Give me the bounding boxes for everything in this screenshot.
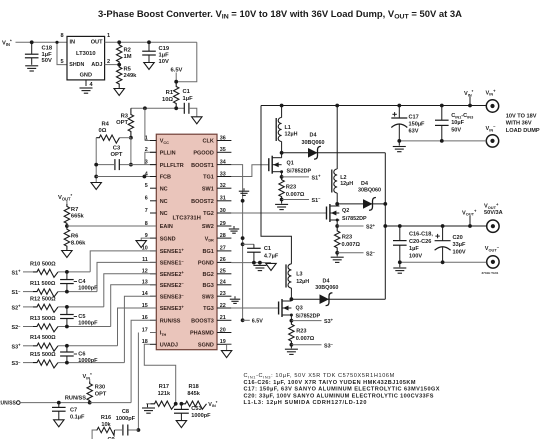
svg-text:LOAD DUMP: LOAD DUMP (506, 128, 540, 134)
wire TG2 to Q2 gate (231, 212, 326, 214)
resistor R15 (33, 360, 58, 368)
wire VIN rail (261, 105, 486, 107)
svg-text:SGND: SGND (198, 343, 214, 349)
svg-text:PGND: PGND (198, 261, 214, 267)
svg-text:L1: L1 (285, 125, 291, 131)
svg-text:1000pF: 1000pF (78, 285, 98, 291)
resistor R23 phase1 sense (279, 177, 284, 200)
wire D4 anode/cathode (282, 152, 386, 154)
wire RUN/SS (20, 402, 90, 404)
junction R2 top (117, 40, 121, 44)
pin 22 stub (217, 307, 231, 309)
junction sense filter (65, 270, 69, 274)
wire (399, 226, 401, 241)
wire C4 (66, 272, 68, 280)
wire (58, 345, 118, 347)
svg-text:R16: R16 (101, 415, 111, 421)
resistor R14 (33, 343, 58, 351)
capacitor C5 (60, 314, 74, 316)
junction L2 top (335, 104, 339, 108)
resistor R23 phase2 sense (335, 226, 340, 253)
junction BOOST3 (241, 318, 245, 322)
ground R23 phase1 (275, 203, 288, 205)
resistor R12 (33, 304, 58, 312)
junction BOOST2 (241, 199, 245, 203)
pin 1 stub (150, 140, 156, 142)
capacitor C20 (435, 240, 451, 242)
svg-text:SW1: SW1 (202, 186, 214, 192)
svg-text:L3: L3 (296, 272, 302, 278)
pin 29 stub (217, 225, 231, 227)
wire S2+ (337, 225, 363, 227)
junction R3 R4 (129, 136, 133, 140)
node S2- junction (335, 251, 339, 255)
wire (58, 291, 97, 293)
svg-text:0.007Ω: 0.007Ω (296, 336, 315, 342)
pin 27 stub (217, 250, 231, 252)
svg-text:28: 28 (220, 233, 226, 239)
junction CIN top (440, 104, 444, 108)
junction C17 bottom (397, 139, 401, 143)
wire (23, 326, 33, 328)
wire C3 left (96, 164, 115, 166)
svg-text:RUN/SS: RUN/SS (0, 401, 16, 407)
svg-text:10V TO 18V: 10V TO 18V (506, 113, 537, 119)
node S3- junction (290, 343, 294, 347)
junction C1 bottom (252, 261, 256, 265)
svg-text:R5: R5 (124, 67, 132, 73)
capacitor CIN1-CIN3 (435, 119, 449, 121)
svg-text:1000pF: 1000pF (116, 416, 136, 422)
pin 31 stub (217, 200, 231, 202)
wire TG3 to Q3 gate (231, 307, 278, 309)
pin 28 stub (217, 237, 231, 239)
wire SW3 gnd tick (234, 296, 236, 298)
svg-text:CIN1-CIN3: CIN1-CIN3 (451, 113, 474, 119)
svg-text:23: 23 (220, 291, 226, 297)
wire C1 to ground (189, 108, 197, 117)
svg-text:249k: 249k (124, 73, 138, 79)
wire (31, 42, 33, 54)
svg-text:10V: 10V (159, 59, 169, 65)
capacitor C16-C26 bank (393, 240, 407, 242)
svg-text:SENSE2+: SENSE2+ (160, 270, 185, 278)
svg-text:PGOOD: PGOOD (193, 151, 214, 157)
svg-text:C8: C8 (122, 409, 129, 415)
svg-text:2: 2 (107, 59, 110, 65)
capacitor C18 (25, 53, 39, 55)
inductor L3 (288, 264, 291, 288)
node S1+ junction (280, 175, 284, 179)
svg-text:BG2: BG2 (202, 272, 213, 278)
resistor R5 (116, 65, 121, 87)
node S1- junction (280, 198, 284, 202)
junction C16 top (398, 224, 402, 228)
capacitor C8 (122, 425, 124, 436)
wire (441, 106, 443, 121)
junction C17 top (397, 104, 401, 108)
wire BOOST 6.5V rail (231, 165, 242, 321)
svg-text:1000pF: 1000pF (78, 358, 98, 364)
svg-text:C20-C26: C20-C26 (409, 239, 431, 245)
ground VIN return (393, 146, 406, 148)
junction VDR (241, 236, 245, 240)
svg-text:C7: C7 (70, 407, 77, 413)
wire RUN/SS vertical (131, 320, 156, 402)
junction ITH comp (137, 428, 141, 432)
pin 23 stub (217, 295, 231, 297)
junction C3 gnd leg (94, 163, 98, 167)
svg-text:1000pF: 1000pF (78, 320, 98, 326)
wire VIN* tick (469, 97, 471, 106)
wire (23, 362, 33, 364)
svg-text:PLLIN: PLLIN (160, 151, 176, 157)
wire PLLFLTR (119, 164, 156, 166)
junction FCB (143, 175, 147, 179)
wire ADJ to divider (105, 64, 120, 66)
junction ADJ divider (117, 63, 121, 67)
svg-text:1µF: 1µF (409, 246, 419, 252)
wire (58, 306, 104, 308)
svg-text:LT3010: LT3010 (76, 51, 96, 57)
svg-text:34: 34 (220, 159, 226, 165)
svg-text:21: 21 (220, 315, 226, 321)
wire VOUT return (400, 261, 487, 263)
wire (58, 326, 111, 328)
pin 32 stub (217, 187, 231, 189)
junction sense filter (65, 344, 69, 348)
svg-text:Q1: Q1 (287, 161, 294, 167)
resistor R11 (33, 289, 58, 297)
wire S3- (291, 344, 321, 346)
wire C5 (66, 307, 68, 315)
wire to SENSE pin 14 (124, 296, 156, 362)
ground SGND pin19 (221, 351, 231, 358)
ground LT3010 (80, 87, 93, 89)
svg-text:FCB: FCB (160, 175, 171, 181)
wire Q3 source (290, 315, 292, 321)
wire VIN return (399, 140, 486, 142)
svg-text:10µF: 10µF (451, 120, 464, 126)
resistor R16 (97, 427, 115, 435)
svg-text:SHDN: SHDN (69, 62, 84, 68)
wire R3 to PLLFLTR (130, 138, 132, 165)
svg-text:32: 32 (220, 183, 226, 189)
terminal VIN- (486, 135, 498, 147)
plus C17 (392, 113, 396, 115)
wire (23, 345, 33, 347)
svg-text:22: 22 (220, 303, 226, 309)
pin 12 stub (150, 273, 156, 275)
svg-text:5: 5 (60, 59, 63, 65)
svg-text:C20: 33µF, 100V SANYO ALUMINUM: C20: 33µF, 100V SANYO ALUMINUM ELECTROLY… (244, 393, 434, 399)
resistor R2 (116, 42, 121, 64)
svg-text:3: 3 (145, 159, 148, 165)
svg-text:C16-C18,: C16-C18, (409, 232, 433, 238)
svg-text:63V: 63V (409, 129, 419, 135)
junction C20 top (441, 224, 445, 228)
svg-text:C3: C3 (113, 146, 121, 152)
svg-text:12µH: 12µH (285, 132, 298, 138)
capacitor C1 4.7uF (247, 247, 261, 249)
wire to SENSE pin 12 (104, 274, 157, 307)
capacitor C7 (52, 406, 66, 408)
pin 5 stub (150, 187, 156, 189)
svg-text:C16-C26: 1µF, 100V X7R TAIYO Y: C16-C26: 1µF, 100V X7R TAIYO YUDEN HMK43… (244, 380, 416, 386)
pin 25 stub (217, 273, 231, 275)
svg-text:SENSE1–: SENSE1– (160, 259, 185, 267)
capacitor C6 (60, 351, 74, 353)
pin 24 stub (217, 284, 231, 286)
ground R6 (62, 251, 72, 258)
svg-text:SENSE1+: SENSE1+ (160, 247, 185, 255)
svg-text:2: 2 (145, 147, 148, 153)
pin 10 stub (150, 250, 156, 252)
svg-text:UVADJ: UVADJ (160, 343, 178, 349)
svg-text:ADJ: ADJ (91, 62, 102, 68)
svg-text:WITH 36V: WITH 36V (506, 121, 532, 127)
pin 30 stub (217, 212, 231, 214)
svg-text:SENSE3–: SENSE3– (160, 293, 185, 301)
svg-text:SENSE2–: SENSE2– (160, 281, 185, 289)
svg-text:Si7852DP: Si7852DP (342, 216, 367, 222)
wire Q3 drain (290, 299, 292, 301)
svg-text:PLLFLTR: PLLFLTR (160, 163, 184, 169)
svg-text:Q2: Q2 (342, 208, 349, 214)
svg-text:1M: 1M (124, 54, 132, 60)
svg-text:0Ω: 0Ω (99, 128, 107, 134)
svg-text:10Ω: 10Ω (162, 97, 173, 103)
ground SGND pin9 (136, 241, 146, 248)
svg-text:BOOST2: BOOST2 (191, 199, 214, 205)
svg-text:C6: C6 (78, 351, 85, 357)
svg-text:0.1µF: 0.1µF (70, 414, 85, 420)
junction C53 (180, 402, 184, 406)
ground R5 (114, 89, 124, 96)
wire VCC node (131, 107, 184, 109)
wire (281, 200, 283, 204)
svg-text:6: 6 (145, 196, 148, 202)
svg-text:100V: 100V (409, 253, 422, 259)
svg-text:D4: D4 (323, 279, 330, 285)
svg-text:R23: R23 (342, 235, 352, 241)
wire (31, 58, 33, 65)
wire SHDN to IN (57, 42, 67, 64)
wire TG1 to Q1 gate (231, 165, 268, 177)
wire VOUT rail (384, 153, 386, 299)
capacitor C4 (60, 279, 74, 281)
svg-text:3731H TA01: 3731H TA01 (482, 271, 499, 275)
svg-text:35: 35 (220, 147, 226, 153)
ground R17 (142, 407, 155, 409)
svg-text:C18: C18 (42, 46, 53, 52)
inductor L2 (334, 169, 337, 193)
svg-text:SW2: SW2 (202, 224, 214, 230)
svg-text:BOOST1: BOOST1 (191, 163, 214, 169)
pin 16 stub (150, 319, 156, 321)
svg-text:CIN1-CIN3: 10µF, 50V X5R TDK C: CIN1-CIN3: 10µF, 50V X5R TDK C5750X5R1H1… (244, 373, 395, 379)
svg-text:NC: NC (160, 186, 168, 192)
svg-text:33µF: 33µF (453, 242, 466, 248)
svg-text:Si7852DP: Si7852DP (296, 313, 321, 319)
wire SGND pin9 (141, 238, 150, 241)
wire Q1 source (281, 172, 283, 177)
transistor Q3 (278, 302, 280, 315)
wire VIN* to LT3010 IN (16, 41, 68, 43)
svg-text:R23: R23 (286, 185, 296, 191)
svg-text:12µH: 12µH (296, 279, 309, 285)
svg-text:29: 29 (220, 221, 226, 227)
resistor R1 (174, 82, 179, 109)
ground SW1 (239, 190, 249, 192)
svg-text:845k: 845k (187, 391, 200, 397)
svg-text:NC: NC (160, 199, 168, 205)
capacitor C17 (391, 117, 407, 119)
svg-text:OPT: OPT (116, 120, 128, 126)
wire ITH vertical (137, 333, 139, 431)
svg-text:8.06k: 8.06k (71, 241, 86, 247)
svg-text:C17: 150µF, 63V SANYO ALUMINUM: C17: 150µF, 63V SANYO ALUMINUM ELECTROLY… (244, 387, 440, 393)
svg-text:R12 500Ω: R12 500Ω (30, 296, 56, 302)
svg-text:PHASMD: PHASMD (190, 331, 214, 337)
wire (180, 404, 182, 410)
pin 33 stub (217, 176, 231, 178)
pin 34 stub (217, 164, 231, 166)
junction EAIN divider (65, 224, 69, 228)
transistor Q1 (268, 158, 270, 171)
wire RUN/SS to pin16 (90, 402, 131, 404)
wire GND pin 4 (85, 80, 87, 86)
svg-text:D4: D4 (310, 133, 317, 139)
svg-text:100V: 100V (453, 249, 466, 255)
regulator U2 LT3010 (67, 36, 105, 80)
svg-text:TG3: TG3 (203, 306, 214, 312)
wire S2- (337, 252, 363, 254)
svg-text:R6: R6 (71, 233, 79, 239)
wire SW1 gnd tick (243, 188, 245, 190)
wire VCC pin stub (145, 140, 156, 142)
svg-text:SENSE3+: SENSE3+ (160, 304, 185, 312)
ground C7 (54, 420, 64, 427)
ground R23 phase2 (331, 256, 344, 258)
svg-text:BG3: BG3 (202, 283, 213, 289)
wire SGND pin19 (226, 344, 228, 350)
svg-text:R13 500Ω: R13 500Ω (30, 316, 56, 322)
junction 6.5V R1 (174, 80, 178, 84)
wire VOUT+ tick (469, 216, 471, 226)
svg-text:SW3: SW3 (202, 294, 214, 300)
svg-text:Q3: Q3 (296, 306, 303, 312)
svg-text:R18: R18 (188, 384, 198, 390)
svg-text:30BQ060: 30BQ060 (301, 140, 324, 146)
svg-text:R23: R23 (296, 329, 306, 335)
svg-text:19: 19 (220, 339, 226, 345)
svg-text:RUN/SS: RUN/SS (160, 319, 181, 325)
svg-text:50V/3A: 50V/3A (484, 210, 503, 216)
svg-text:4: 4 (145, 171, 148, 177)
wire SW2 gnd tick (233, 226, 235, 228)
svg-text:C4: C4 (78, 279, 86, 285)
svg-text:1000pF: 1000pF (191, 413, 211, 419)
resistor R6 (64, 226, 69, 250)
wire (128, 429, 139, 431)
junction SHDN IN (55, 41, 58, 44)
wire VIN to L3 (261, 106, 291, 264)
pin 8 stub (150, 225, 156, 227)
svg-text:RUN/SS: RUN/SS (65, 395, 86, 401)
wire to SENSE pin 15 (118, 308, 157, 346)
wire (336, 106, 338, 170)
svg-text:5: 5 (145, 183, 148, 189)
wire (23, 306, 33, 308)
svg-text:0.007Ω: 0.007Ω (342, 242, 361, 248)
pin 14 stub (150, 295, 156, 297)
svg-text:BOOST3: BOOST3 (191, 319, 214, 325)
svg-text:CLK: CLK (202, 139, 213, 145)
pin 20 stub (217, 332, 231, 334)
wire EAIN (67, 225, 156, 227)
svg-text:150µF: 150µF (409, 122, 426, 128)
svg-text:1µF: 1µF (159, 53, 170, 59)
wire to SENSE pin 11 (97, 262, 156, 291)
svg-text:50V: 50V (42, 58, 52, 64)
wire (23, 291, 33, 293)
pin 4 stub (150, 176, 156, 178)
wire VOUT* tick (66, 200, 68, 204)
pin 18 stub (150, 343, 156, 345)
wire UVADJ (144, 344, 175, 404)
junction D5 cathode rail (383, 202, 387, 206)
capacitor C1 bypass (183, 103, 185, 114)
wire Q1 drain (281, 153, 283, 158)
svg-text:1: 1 (145, 135, 148, 141)
junction ground (258, 261, 262, 265)
svg-text:30: 30 (220, 208, 226, 214)
capacitor C3 OPT (114, 159, 116, 170)
svg-text:SGND: SGND (160, 236, 176, 242)
junction C19 top (147, 40, 151, 44)
ground FCB (91, 183, 101, 190)
pin 26 stub (217, 261, 231, 263)
pin 6 stub (150, 200, 156, 202)
svg-text:OUT: OUT (91, 40, 103, 46)
junction Q1 drain (280, 151, 284, 155)
wire PLLIN to PLLFLTR (145, 152, 156, 164)
junction PLLFLTR (129, 163, 133, 167)
svg-text:10k: 10k (101, 422, 111, 428)
svg-text:R15 500Ω: R15 500Ω (30, 352, 56, 358)
ground C53 (176, 421, 186, 428)
svg-text:Si7852DP: Si7852DP (287, 168, 312, 174)
junction C7 (57, 401, 61, 405)
svg-text:R2: R2 (124, 48, 131, 54)
terminal VOUT+ (487, 220, 499, 232)
junction C20 bottom (441, 260, 445, 264)
ground SW2 (229, 228, 239, 230)
junction sense filter (65, 290, 69, 294)
wire 6.5V tick (175, 73, 177, 82)
svg-text:33: 33 (220, 171, 226, 177)
svg-text:24: 24 (220, 280, 226, 286)
junction VOUT rail output (383, 224, 387, 228)
wire (58, 403, 60, 408)
junction C1 bypass (241, 242, 245, 246)
svg-text:D4: D4 (361, 181, 368, 187)
capacitor C53 (174, 408, 189, 410)
svg-text:36: 36 (220, 135, 226, 141)
svg-text:26: 26 (220, 257, 226, 263)
junction VOUT* tick (468, 224, 472, 228)
